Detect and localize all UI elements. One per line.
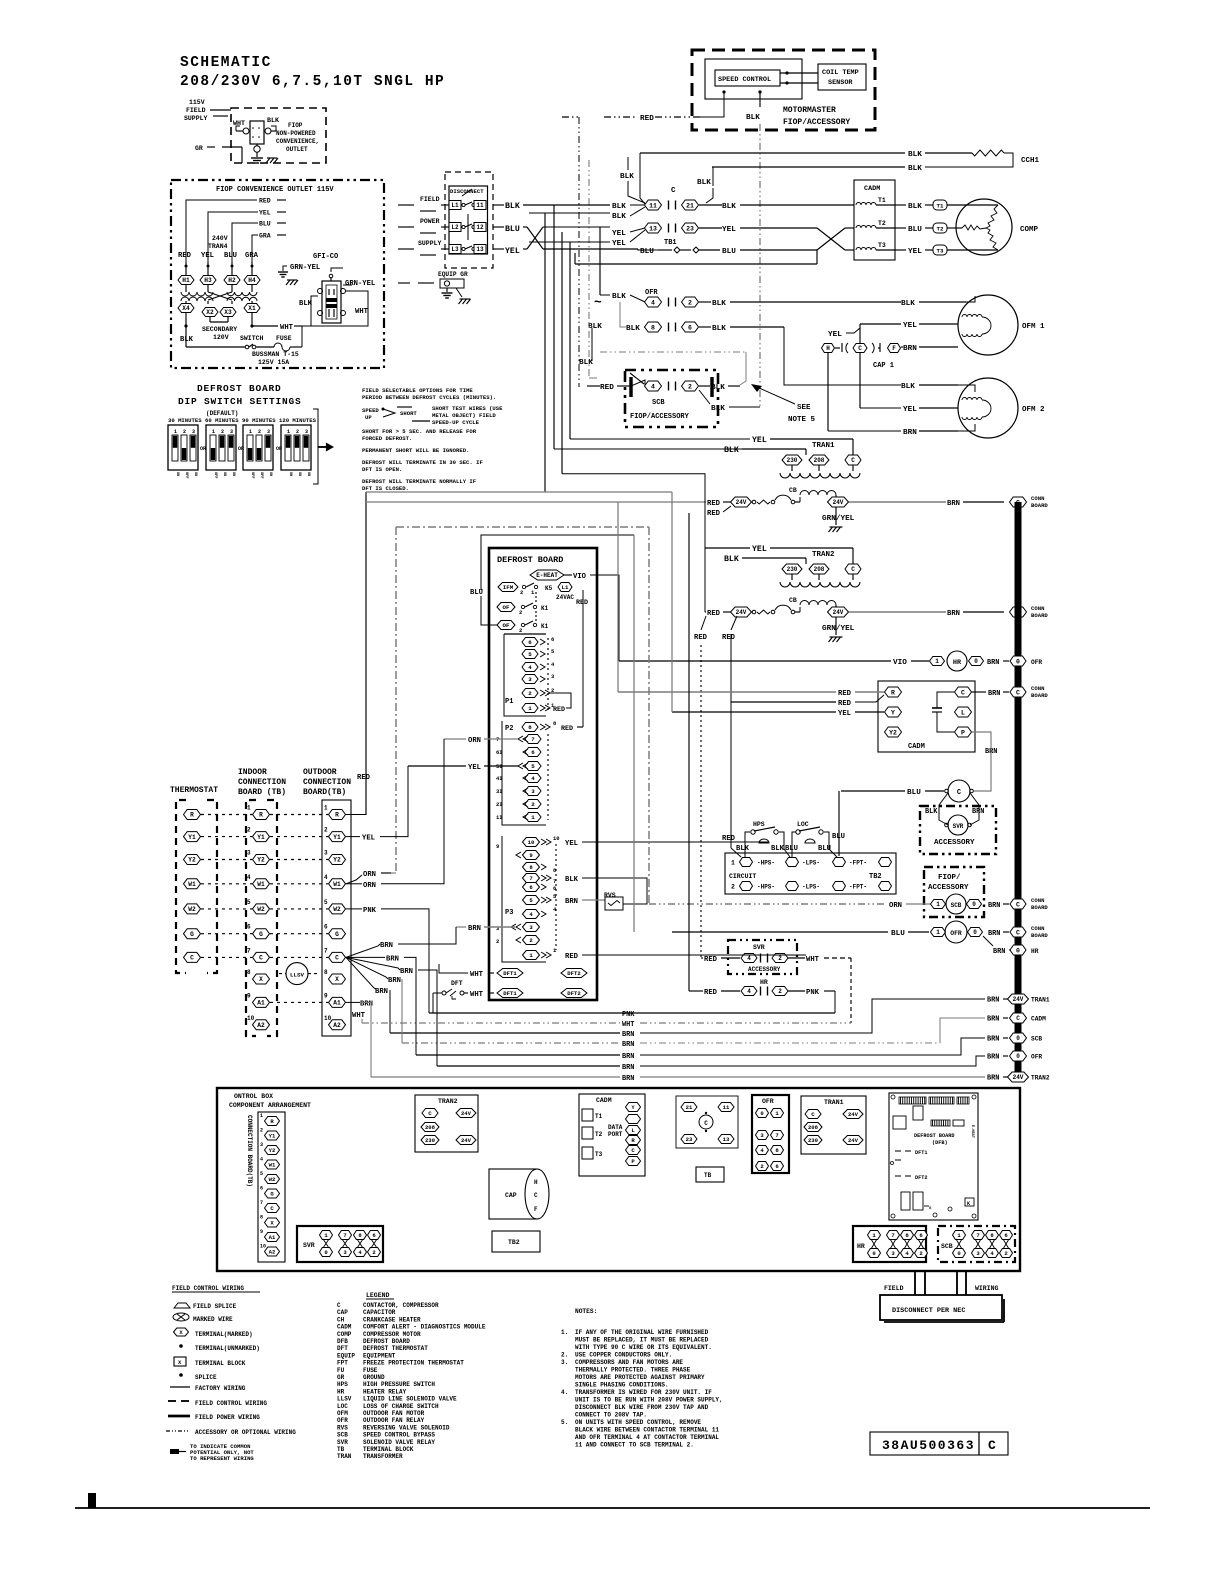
svg-text:C: C <box>1016 901 1020 908</box>
svg-text:0: 0 <box>1016 947 1020 954</box>
svg-text:2: 2 <box>260 1128 263 1134</box>
svg-text:8: 8 <box>247 969 251 976</box>
svg-text:5: 5 <box>324 899 328 906</box>
svg-text:24V: 24V <box>1013 1074 1024 1081</box>
svg-text:H4: H4 <box>248 277 256 284</box>
svg-text:4: 4 <box>324 874 328 881</box>
svg-text:TRANSFORMER IS WIRED FOR 230V: TRANSFORMER IS WIRED FOR 230V UNIT. IF <box>575 1389 712 1396</box>
svg-text:LOSS OF CHARGE SWITCH: LOSS OF CHARGE SWITCH <box>363 1403 439 1410</box>
svg-text:Y1: Y1 <box>333 834 341 841</box>
svg-text:FIOP/ACCESSORY: FIOP/ACCESSORY <box>783 118 850 127</box>
svg-text:OFR: OFR <box>762 1098 774 1105</box>
svg-text:BLU: BLU <box>785 845 798 853</box>
svg-text:GROUND: GROUND <box>363 1374 385 1381</box>
svg-text:TRANSFORMER: TRANSFORMER <box>363 1453 403 1460</box>
svg-text:ORN: ORN <box>468 737 481 745</box>
svg-text:BRN: BRN <box>972 808 984 816</box>
svg-text:OFR: OFR <box>950 930 962 937</box>
svg-text:DEFROST WILL TERMINATE IN 30 S: DEFROST WILL TERMINATE IN 30 SEC. IF <box>362 459 483 466</box>
svg-text:YEL: YEL <box>505 247 520 256</box>
svg-text:OR: OR <box>276 446 282 452</box>
svg-text:-HPS-: -HPS- <box>757 884 775 891</box>
svg-text:Y2: Y2 <box>889 729 897 736</box>
svg-text:24V: 24V <box>833 499 844 506</box>
svg-text:X2: X2 <box>206 309 214 316</box>
svg-text:10: 10 <box>260 1244 266 1250</box>
svg-text:BOARD (TB): BOARD (TB) <box>238 788 286 797</box>
svg-text:WHT: WHT <box>280 324 294 332</box>
svg-text:FIOP/: FIOP/ <box>938 874 961 882</box>
svg-text:TRAN2: TRAN2 <box>438 1098 458 1105</box>
svg-text:FUSE: FUSE <box>363 1367 378 1374</box>
svg-text:TO REPRESENT WIRING: TO REPRESENT WIRING <box>190 1455 254 1462</box>
svg-text:BRN: BRN <box>622 1031 634 1039</box>
svg-text:208: 208 <box>814 457 825 464</box>
svg-text:PORT: PORT <box>608 1131 623 1138</box>
svg-text:Y2: Y2 <box>333 857 341 864</box>
svg-text:5: 5 <box>528 651 532 658</box>
svg-text:T2: T2 <box>937 225 944 232</box>
svg-text:-LPS-: -LPS- <box>802 860 820 867</box>
svg-text:BLK: BLK <box>712 300 726 308</box>
svg-text:Y1: Y1 <box>269 1133 276 1140</box>
svg-text:BRN: BRN <box>987 659 999 667</box>
svg-text:TRAN1: TRAN1 <box>1031 997 1050 1004</box>
svg-text:TERMINAL(MARKED): TERMINAL(MARKED) <box>195 1331 253 1338</box>
svg-text:1: 1 <box>249 429 252 435</box>
svg-text:GRN-YEL: GRN-YEL <box>345 280 375 288</box>
svg-text:6: 6 <box>551 636 554 643</box>
svg-text:OFF: OFF <box>184 472 188 478</box>
svg-text:ON: ON <box>306 472 310 476</box>
svg-text:2: 2 <box>183 429 186 435</box>
svg-text:BLK: BLK <box>925 808 938 816</box>
svg-text:2: 2 <box>778 988 782 995</box>
svg-text:RED: RED <box>838 690 852 698</box>
svg-text:K1: K1 <box>541 623 549 630</box>
svg-text:10: 10 <box>528 839 535 846</box>
svg-text:24V: 24V <box>848 1137 859 1144</box>
svg-text:FIELD: FIELD <box>186 107 206 114</box>
svg-text:DISCONNECT PER NEC: DISCONNECT PER NEC <box>892 1307 965 1315</box>
svg-text:A1: A1 <box>269 1234 276 1241</box>
svg-text:BLK: BLK <box>711 405 725 413</box>
svg-text:IF ANY OF THE ORIGINAL WIRE FU: IF ANY OF THE ORIGINAL WIRE FURNISHED <box>575 1329 709 1336</box>
svg-text:DFT1: DFT1 <box>915 1150 927 1156</box>
svg-text:R: R <box>190 812 194 819</box>
svg-text:4: 4 <box>260 1157 263 1163</box>
svg-text:CADM: CADM <box>596 1097 612 1104</box>
svg-text:RED: RED <box>553 706 565 714</box>
svg-text:13: 13 <box>649 225 657 232</box>
svg-text:LIQUID LINE SOLENOID VALVE: LIQUID LINE SOLENOID VALVE <box>363 1396 457 1403</box>
svg-text:A1: A1 <box>333 1000 341 1007</box>
svg-text:P: P <box>961 729 965 736</box>
svg-text:DEFROST BOARD: DEFROST BOARD <box>497 555 563 565</box>
svg-text:NON-POWERED: NON-POWERED <box>276 130 316 137</box>
svg-text:OUTDOOR: OUTDOOR <box>303 768 337 777</box>
svg-text:C: C <box>811 1111 815 1118</box>
svg-text:TRAN: TRAN <box>337 1453 352 1460</box>
svg-text:K: K <box>967 1201 970 1207</box>
svg-text:BLK: BLK <box>620 173 634 181</box>
svg-text:L1: L1 <box>562 584 569 591</box>
svg-text:8: 8 <box>651 324 655 331</box>
svg-text:3: 3 <box>230 429 233 435</box>
svg-text:YEL: YEL <box>201 252 214 260</box>
svg-text:60 MINUTES: 60 MINUTES <box>205 417 239 424</box>
svg-text:A1: A1 <box>257 1000 265 1007</box>
svg-text:DFT1: DFT1 <box>503 970 517 977</box>
svg-text:COMP: COMP <box>1020 226 1039 234</box>
svg-text:HR: HR <box>953 659 962 667</box>
svg-text:-HPS-: -HPS- <box>757 860 775 867</box>
svg-text:CCH1: CCH1 <box>1021 157 1040 165</box>
svg-text:BLK: BLK <box>612 293 626 301</box>
svg-text:W1: W1 <box>269 1162 276 1169</box>
svg-text:11: 11 <box>649 202 657 209</box>
svg-text:W2: W2 <box>269 1176 276 1183</box>
svg-text:SUPPLY: SUPPLY <box>184 115 208 122</box>
svg-text:ON: ON <box>222 472 226 476</box>
svg-text:GFI-CO: GFI-CO <box>313 253 338 261</box>
svg-text:-LPS-: -LPS- <box>802 884 820 891</box>
svg-text:120 MINUTES: 120 MINUTES <box>279 417 317 424</box>
svg-text:BLK: BLK <box>612 213 626 221</box>
svg-text:GRN/YEL: GRN/YEL <box>822 515 855 523</box>
svg-text:BRN: BRN <box>565 898 578 906</box>
svg-text:TB2: TB2 <box>869 873 882 881</box>
svg-text:3: 3 <box>528 676 532 683</box>
svg-text:SCB: SCB <box>337 1432 348 1439</box>
svg-text:13: 13 <box>476 246 484 253</box>
svg-text:208: 208 <box>425 1124 436 1131</box>
svg-text:OFF: OFF <box>213 472 217 478</box>
svg-text:SECONDARY: SECONDARY <box>202 326 237 333</box>
svg-text:A2: A2 <box>333 1022 341 1029</box>
svg-text:6: 6 <box>528 639 532 646</box>
svg-text:OFM: OFM <box>337 1410 348 1417</box>
svg-text:SPEED-UP CYCLE: SPEED-UP CYCLE <box>432 419 480 426</box>
svg-text:GR: GR <box>337 1374 345 1381</box>
svg-text:WIRING: WIRING <box>975 1285 999 1292</box>
svg-text:FIELD CONTROL WIRING: FIELD CONTROL WIRING <box>195 1400 267 1407</box>
svg-text:SVR: SVR <box>753 944 765 951</box>
svg-text:TB2: TB2 <box>508 1239 520 1246</box>
svg-text:RVS: RVS <box>604 892 616 899</box>
svg-text:RED: RED <box>707 610 721 618</box>
svg-text:BRN: BRN <box>987 1016 999 1024</box>
svg-text:240V: 240V <box>212 235 228 242</box>
svg-text:K5: K5 <box>545 585 553 592</box>
svg-text:7: 7 <box>775 1132 778 1139</box>
svg-text:BLU: BLU <box>259 221 271 228</box>
svg-text:YEL: YEL <box>838 710 851 718</box>
svg-text:BLK: BLK <box>908 165 922 173</box>
svg-text:YEL: YEL <box>565 840 578 848</box>
svg-text:WHT: WHT <box>470 991 484 999</box>
svg-text:208: 208 <box>814 566 825 573</box>
svg-text:8: 8 <box>260 1215 263 1221</box>
svg-text:BRN: BRN <box>987 997 999 1005</box>
svg-text:P2: P2 <box>505 725 513 733</box>
svg-text:ACCESSORY: ACCESSORY <box>934 839 975 847</box>
svg-text:CONN: CONN <box>1031 495 1044 502</box>
svg-text:9: 9 <box>324 992 328 999</box>
svg-text:24V: 24V <box>1013 996 1024 1003</box>
svg-text:G: G <box>335 931 339 938</box>
svg-text:BRN: BRN <box>386 955 399 963</box>
svg-text:TRAN2: TRAN2 <box>812 551 835 559</box>
svg-text:Y1: Y1 <box>188 834 196 841</box>
svg-text:BLK: BLK <box>579 359 593 367</box>
svg-text:TERMINAL BLOCK: TERMINAL BLOCK <box>195 1360 246 1367</box>
svg-text:OFF: OFF <box>250 472 254 478</box>
svg-text:ORN: ORN <box>363 882 376 890</box>
svg-text:BOARD: BOARD <box>1031 502 1048 509</box>
svg-text:125V 15A: 125V 15A <box>258 359 289 366</box>
svg-text:Y: Y <box>891 709 895 716</box>
svg-text:7: 7 <box>529 875 532 882</box>
svg-text:BLK: BLK <box>901 300 915 308</box>
svg-text:ONTROL BOX: ONTROL BOX <box>234 1093 273 1100</box>
svg-text:C: C <box>337 1302 341 1309</box>
svg-text:10: 10 <box>247 1015 255 1022</box>
svg-text:3: 3 <box>531 788 535 795</box>
svg-text:5.: 5. <box>561 1419 568 1426</box>
svg-text:11: 11 <box>476 202 484 209</box>
svg-text:LOC: LOC <box>337 1403 348 1410</box>
svg-text:YEL: YEL <box>468 764 481 772</box>
svg-text:1: 1 <box>531 814 535 821</box>
svg-text:WITH TYPE 90 C WIRE OR ITS EQU: WITH TYPE 90 C WIRE OR ITS EQUIVALENT. <box>575 1344 712 1351</box>
svg-text:BLK: BLK <box>771 845 785 853</box>
svg-text:BRN: BRN <box>988 930 1000 938</box>
svg-text:W1: W1 <box>257 881 265 888</box>
svg-text:BRN: BRN <box>380 942 393 950</box>
svg-text:7: 7 <box>324 947 328 954</box>
svg-text:6: 6 <box>531 749 535 756</box>
svg-text:DFT: DFT <box>337 1345 348 1352</box>
svg-text:NOTE 5: NOTE 5 <box>788 416 816 424</box>
svg-text:OFR: OFR <box>337 1417 348 1424</box>
svg-text:PNK: PNK <box>363 907 377 915</box>
svg-text:7: 7 <box>247 947 251 954</box>
svg-text:H3: H3 <box>204 277 212 284</box>
svg-text:1: 1 <box>936 929 940 936</box>
svg-text:23: 23 <box>686 225 694 232</box>
svg-text:F: F <box>534 1206 538 1213</box>
svg-text:RED: RED <box>640 115 654 123</box>
svg-text:LEGEND: LEGEND <box>366 1292 390 1299</box>
svg-text:CONN: CONN <box>1031 685 1044 692</box>
svg-text:RED: RED <box>178 252 192 260</box>
svg-text:GRN/YEL: GRN/YEL <box>822 625 855 633</box>
svg-text:W1: W1 <box>188 881 196 888</box>
svg-text:FIELD CONTROL WIRING: FIELD CONTROL WIRING <box>172 1285 244 1292</box>
svg-text:BRN: BRN <box>987 1075 999 1083</box>
svg-text:COMPONENT ARRANGEMENT: COMPONENT ARRANGEMENT <box>229 1102 311 1109</box>
svg-text:BLU: BLU <box>907 789 921 797</box>
svg-text:HPS: HPS <box>337 1381 348 1388</box>
svg-text:DEFROST WILL TERMINATE NORMALL: DEFROST WILL TERMINATE NORMALLY IF <box>362 478 477 485</box>
svg-text:ORN: ORN <box>363 871 376 879</box>
svg-text:BLK: BLK <box>612 203 626 211</box>
svg-text:SPLICE: SPLICE <box>195 1374 217 1381</box>
svg-text:2: 2 <box>688 383 692 390</box>
svg-text:OR: OR <box>238 446 244 452</box>
svg-text:THERMALLY PROTECTED. THREE PH: THERMALLY PROTECTED. THREE PHASE <box>575 1367 691 1374</box>
svg-text:21: 21 <box>686 1104 693 1111</box>
svg-text:YEL: YEL <box>752 545 767 554</box>
svg-text:C: C <box>259 955 263 962</box>
svg-text:1: 1 <box>287 429 290 435</box>
svg-text:FPT: FPT <box>337 1360 348 1367</box>
svg-text:YEL: YEL <box>903 322 917 330</box>
svg-text:VIO: VIO <box>893 659 907 667</box>
svg-text:RED: RED <box>694 634 708 642</box>
svg-text:1: 1 <box>936 901 940 908</box>
svg-text:OUTDOOR FAN MOTOR: OUTDOOR FAN MOTOR <box>363 1410 425 1417</box>
svg-text:GR: GR <box>195 145 203 152</box>
svg-text:0: 0 <box>973 929 977 936</box>
svg-text:BLK: BLK <box>588 323 602 331</box>
svg-text:10: 10 <box>324 1015 332 1022</box>
svg-text:24V: 24V <box>848 1111 859 1118</box>
svg-text:0: 0 <box>1016 658 1020 665</box>
svg-text:CB: CB <box>789 487 797 494</box>
svg-text:C: C <box>704 1120 708 1127</box>
svg-text:2: 2 <box>258 429 261 435</box>
svg-text:BRN: BRN <box>993 948 1005 956</box>
svg-text:METAL OBJECT) FIELD: METAL OBJECT) FIELD <box>432 412 496 419</box>
svg-text:30 MINUTES: 30 MINUTES <box>168 417 202 424</box>
svg-text:C: C <box>190 955 194 962</box>
svg-text:3I: 3I <box>496 788 503 795</box>
svg-text:9: 9 <box>247 992 251 999</box>
svg-text:FIOP: FIOP <box>288 122 303 129</box>
svg-text:SHORT FOR > 5 SEC. AND RELEASE: SHORT FOR > 5 SEC. AND RELEASE FOR <box>362 428 477 435</box>
svg-text:BLK: BLK <box>724 446 739 455</box>
svg-text:MUST BE REPLACED, IT MUST BE R: MUST BE REPLACED, IT MUST BE REPLACED <box>575 1337 709 1344</box>
svg-text:BOARD: BOARD <box>1031 932 1048 939</box>
svg-text:3: 3 <box>305 429 308 435</box>
svg-text:CAP: CAP <box>505 1192 517 1199</box>
svg-text:BRN: BRN <box>987 1054 999 1062</box>
svg-text:7: 7 <box>531 736 535 743</box>
svg-text:L: L <box>961 709 965 716</box>
svg-text:OFR: OFR <box>1031 659 1042 666</box>
svg-text:(DFB): (DFB) <box>932 1140 948 1146</box>
svg-text:OFM 2: OFM 2 <box>1022 406 1045 414</box>
svg-text:WHT: WHT <box>352 1012 366 1020</box>
svg-text:BLK: BLK <box>180 336 194 344</box>
svg-text:RED: RED <box>707 500 721 508</box>
svg-text:RED: RED <box>704 956 718 964</box>
svg-text:ACCESSORY: ACCESSORY <box>748 966 781 973</box>
svg-text:R: R <box>335 812 339 819</box>
svg-text:BLK: BLK <box>746 114 760 122</box>
svg-text:HPS: HPS <box>753 821 765 828</box>
svg-text:C: C <box>1016 929 1020 936</box>
svg-text:FIELD SPLICE: FIELD SPLICE <box>193 1303 237 1310</box>
svg-text:BLU: BLU <box>505 225 520 234</box>
svg-text:CONVENIENCE,: CONVENIENCE, <box>276 138 319 145</box>
svg-text:0: 0 <box>1016 1035 1020 1042</box>
svg-text:OFR: OFR <box>1031 1054 1042 1061</box>
svg-text:X4: X4 <box>182 305 190 312</box>
svg-text:ACCESSORY: ACCESSORY <box>928 884 969 892</box>
svg-text:6I: 6I <box>496 749 503 756</box>
svg-text:1: 1 <box>731 860 735 867</box>
svg-text:BRN: BRN <box>468 925 481 933</box>
svg-text:T1: T1 <box>878 197 886 204</box>
svg-text:SHORT: SHORT <box>400 410 417 417</box>
svg-text:1: 1 <box>528 705 532 712</box>
svg-text:38AU500363: 38AU500363 <box>882 1438 975 1453</box>
svg-text:CADM: CADM <box>908 743 925 751</box>
svg-text:21: 21 <box>686 202 694 209</box>
svg-text:-FPT-: -FPT- <box>849 884 867 891</box>
svg-text:0: 0 <box>1016 1053 1020 1060</box>
svg-text:YEL: YEL <box>828 331 842 339</box>
svg-text:7: 7 <box>343 1232 346 1239</box>
svg-text:2: 2 <box>531 801 535 808</box>
svg-text:R: R <box>891 689 895 696</box>
svg-text:A2: A2 <box>257 1022 265 1029</box>
svg-text:CH: CH <box>337 1316 345 1323</box>
svg-text:ON: ON <box>297 472 301 476</box>
svg-text:RED: RED <box>704 989 718 997</box>
svg-text:THERMOSTAT: THERMOSTAT <box>170 786 218 795</box>
svg-text:COMP: COMP <box>337 1331 352 1338</box>
svg-text:CONN: CONN <box>1031 605 1044 612</box>
svg-text:SCB: SCB <box>652 399 665 407</box>
svg-text:BLU: BLU <box>722 248 736 256</box>
svg-text:G: G <box>190 931 194 938</box>
svg-text:P1: P1 <box>505 698 513 706</box>
svg-text:F: F <box>892 345 896 352</box>
svg-text:Y1: Y1 <box>257 834 265 841</box>
svg-text:PERIOD BETWEEN DEFROST CYCLES: PERIOD BETWEEN DEFROST CYCLES (MINUTES). <box>362 394 496 401</box>
svg-text:X3: X3 <box>224 309 232 316</box>
svg-text:SPEED CONTROL: SPEED CONTROL <box>718 76 771 84</box>
svg-text:6: 6 <box>247 924 251 931</box>
svg-text:ON UNITS WITH SPEED CONTROL, R: ON UNITS WITH SPEED CONTROL, REMOVE <box>575 1419 701 1426</box>
svg-text:BLK: BLK <box>697 179 711 187</box>
svg-text:LLSV: LLSV <box>337 1396 352 1403</box>
svg-text:CAP: CAP <box>337 1309 348 1316</box>
svg-text:WHT: WHT <box>622 1021 634 1029</box>
svg-text:SHORT TEST WIRES (USE: SHORT TEST WIRES (USE <box>432 405 503 412</box>
svg-text:SCB: SCB <box>1031 1036 1042 1043</box>
svg-text:4I: 4I <box>496 775 503 782</box>
svg-text:BLU: BLU <box>908 226 922 234</box>
svg-text:W1: W1 <box>333 881 341 888</box>
svg-text:24V: 24V <box>736 609 747 616</box>
svg-text:5: 5 <box>260 1171 263 1177</box>
svg-text:1: 1 <box>324 805 328 812</box>
svg-text:WHT: WHT <box>470 971 484 979</box>
svg-text:H: H <box>826 345 830 352</box>
svg-text:CAP 1: CAP 1 <box>873 362 894 370</box>
svg-text:W2: W2 <box>333 906 341 913</box>
svg-text:ON: ON <box>288 472 292 476</box>
svg-text:1: 1 <box>260 1113 263 1119</box>
svg-text:COIL TEMP: COIL TEMP <box>822 69 859 77</box>
svg-text:YEL: YEL <box>903 406 917 414</box>
svg-text:6: 6 <box>324 924 328 931</box>
